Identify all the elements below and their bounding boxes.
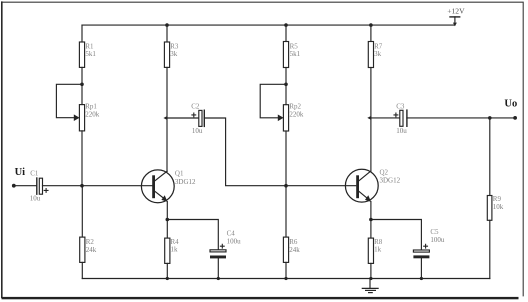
svg-text:Uo: Uo: [504, 99, 517, 110]
wire emitter2 to R8: [370, 220, 372, 239]
svg-text:3k: 3k: [170, 50, 178, 58]
wire C1 to base node to Q1 base: [43, 185, 153, 187]
wire Q2 emitter down: [370, 202, 372, 220]
resistor R5: [283, 42, 288, 68]
node input terminal Ui: [12, 184, 16, 188]
wire Rp1 bottom to base node: [81, 131, 83, 186]
svg-text:R9: R9: [493, 195, 502, 203]
wire R7 top rail junction: [369, 23, 373, 27]
wire C2 to stage2 base node: [204, 118, 355, 186]
node R5/Rp2 junction: [284, 83, 288, 87]
wire emitter2 to C5: [371, 220, 422, 251]
svg-text:24k: 24k: [86, 246, 97, 254]
capacitor C3: [394, 110, 407, 126]
node output terminal Uo: [513, 116, 517, 120]
wire base node 2 to R6: [285, 186, 287, 237]
svg-text:10u: 10u: [30, 195, 41, 203]
potentiometer Rp2: [278, 105, 289, 131]
svg-text:100u: 100u: [227, 237, 242, 245]
wire C5 bottom to rail: [420, 258, 422, 278]
resistor R7: [368, 42, 373, 68]
node base2 junction: [284, 184, 288, 188]
svg-text:C3: C3: [396, 103, 405, 111]
wire top rail: [82, 24, 455, 26]
wire R3 top rail junction: [165, 23, 169, 27]
svg-text:C1: C1: [30, 169, 39, 177]
potentiometer Rp1: [74, 105, 85, 131]
resistor R3: [164, 42, 169, 67]
wire R2 bottom to rail: [81, 262, 83, 278]
wire R5 top rail junction: [284, 23, 288, 27]
wire Rp2 bottom to base node 2: [285, 131, 287, 186]
wire collector2 to C3: [371, 117, 400, 119]
wire Rp1 wiper loop: [56, 84, 82, 117]
wire base node to R2: [81, 186, 83, 237]
node C4 rail junction: [217, 277, 220, 280]
wire emitter to R4: [166, 220, 168, 239]
wire Rp2 wiper loop: [260, 84, 286, 118]
node R6 rail junction: [284, 277, 287, 280]
wire R8 bottom to rail: [370, 263, 372, 278]
svg-text:Rp2: Rp2: [289, 102, 301, 110]
wire R1 top: [81, 25, 83, 42]
node emitter2 junction: [369, 218, 373, 222]
svg-text:10k: 10k: [493, 203, 504, 211]
wire Q1 emitter down: [166, 202, 168, 220]
node C5 rail junction: [420, 277, 423, 280]
node R4 rail junction: [166, 277, 169, 280]
svg-text:1k: 1k: [374, 245, 382, 253]
svg-text:24k: 24k: [289, 246, 300, 254]
svg-text:220k: 220k: [85, 110, 100, 118]
node emitter1 junction: [166, 218, 170, 222]
svg-text:Rp1: Rp1: [85, 102, 97, 110]
wire R1 bottom to Rp1: [81, 67, 83, 104]
node base1 junction: [80, 184, 84, 188]
svg-text:+12V: +12V: [447, 6, 465, 15]
node collector1 / C2 tap: [163, 116, 167, 120]
resistor R6: [283, 237, 288, 262]
svg-text:Ui: Ui: [15, 167, 26, 178]
node R9 top junction: [488, 116, 492, 120]
wire emitter to C4: [167, 220, 218, 250]
svg-text:10u: 10u: [396, 127, 407, 135]
capacitor C5: [413, 244, 429, 258]
wire R5 bottom to Rp2: [285, 68, 287, 105]
node R1/Rp1 junction: [80, 83, 84, 87]
wire R7 bottom to Q2 collector: [370, 68, 372, 171]
wire C3 to output: [407, 117, 515, 119]
svg-text:3k: 3k: [374, 50, 382, 58]
wire bottom rail: [82, 278, 490, 280]
ground: [362, 279, 378, 293]
svg-text:5k1: 5k1: [290, 50, 301, 58]
node collector2 / C3 tap: [367, 116, 371, 120]
resistor R9: [489, 118, 491, 196]
node R8 rail junction: [369, 277, 372, 280]
svg-text:10u: 10u: [192, 127, 203, 135]
capacitor C2: [192, 110, 204, 126]
wire R3 bottom to Q1 collector: [166, 67, 168, 171]
svg-text:3DG12: 3DG12: [175, 178, 196, 186]
svg-text:5k1: 5k1: [85, 50, 96, 58]
wire R6 bottom to rail: [285, 262, 287, 278]
transistor Q1: [141, 170, 174, 203]
+12V supply terminal: [450, 17, 460, 26]
svg-text:1k: 1k: [171, 245, 179, 253]
svg-text:3DG12: 3DG12: [380, 176, 401, 184]
svg-text:220k: 220k: [289, 110, 304, 118]
wire collector to C2: [167, 117, 199, 119]
wire R9 bottom to rail: [489, 220, 491, 278]
resistor R8: [368, 238, 373, 263]
wire R4 bottom to rail: [166, 263, 168, 278]
wire C4 bottom to rail: [217, 258, 219, 278]
capacitor C1: [37, 178, 48, 194]
svg-text:Q1: Q1: [175, 170, 184, 178]
wire input to C1: [14, 185, 37, 187]
capacitor C4: [210, 244, 226, 258]
resistor R4: [165, 238, 170, 263]
resistor R2: [80, 237, 85, 262]
svg-text:100u: 100u: [430, 236, 445, 244]
resistor R1: [79, 42, 84, 67]
transistor Q2: [345, 169, 378, 202]
svg-text:C2: C2: [191, 103, 200, 111]
